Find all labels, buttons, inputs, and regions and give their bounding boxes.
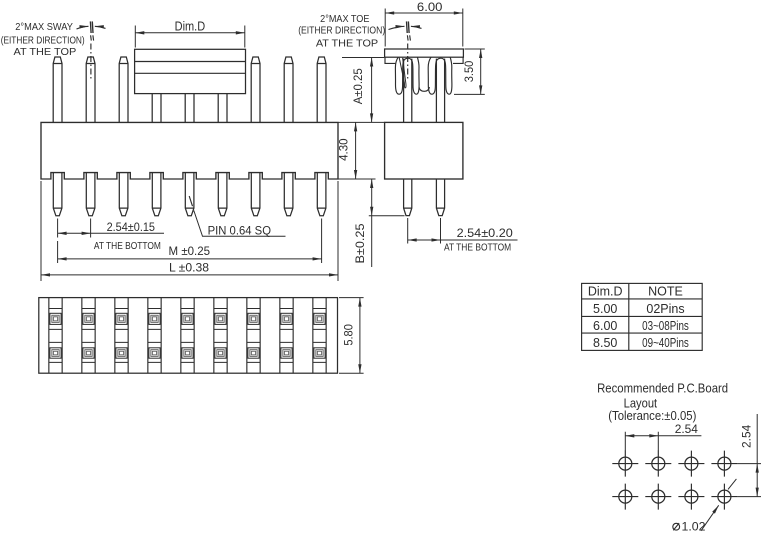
side bottom pin 1 — [404, 179, 412, 216]
svg-text:6.00: 6.00 — [593, 319, 617, 333]
sway arc arrow — [77, 26, 89, 29]
bottom pin 8 — [284, 173, 293, 216]
claw right swan — [445, 57, 452, 94]
svg-text:(EITHER DIRECTION): (EITHER DIRECTION) — [1, 35, 85, 47]
svg-text:M ±0.25: M ±0.25 — [169, 244, 211, 258]
diameter 1.02 label — [673, 520, 706, 534]
svg-text:8.50: 8.50 — [593, 336, 617, 350]
Dim.D block — [135, 49, 246, 93]
sway tilt ticks — [90, 21, 93, 33]
svg-text:03~08Pins: 03~08Pins — [642, 319, 689, 333]
svg-text:5.80: 5.80 — [341, 324, 355, 346]
table frame — [582, 283, 703, 350]
strip 7 — [247, 298, 260, 374]
2.54 +-0.15 dimension — [58, 219, 91, 238]
strip 5 — [181, 298, 194, 374]
hole row2 col1 — [612, 484, 638, 510]
tilted pin diagonals — [399, 58, 406, 88]
svg-text:L ±0.38: L ±0.38 — [169, 261, 209, 275]
B dimension — [371, 179, 373, 216]
svg-text:AT THE TOP: AT THE TOP — [14, 46, 77, 58]
top pin 3 — [119, 57, 128, 122]
claw dome — [436, 58, 445, 61]
bottom pin 6 — [218, 173, 227, 216]
pin 6 under block — [218, 94, 227, 123]
side bottom pin 2 — [436, 179, 444, 216]
svg-text:09~40Pins: 09~40Pins — [642, 336, 689, 350]
Dim.D dimension — [135, 26, 245, 48]
bottom pin 4 — [152, 173, 161, 216]
top pin 1 — [53, 57, 62, 122]
PIN 0.64 SQ label — [189, 196, 192, 206]
claw left swan (pin 1) — [395, 57, 403, 94]
svg-text:PIN 0.64 SQ: PIN 0.64 SQ — [208, 223, 271, 237]
svg-text:3.50: 3.50 — [462, 60, 476, 82]
table column line — [628, 283, 630, 350]
toe quote marks — [407, 35, 410, 40]
pin 5 under block — [185, 94, 194, 123]
svg-text:6.00: 6.00 — [417, 0, 443, 14]
svg-text:2.54: 2.54 — [675, 422, 699, 436]
hole row1 col3 — [678, 451, 704, 477]
strip 6 — [214, 298, 227, 374]
svg-text:2°MAX SWAY: 2°MAX SWAY — [15, 21, 73, 33]
side plate — [385, 49, 464, 57]
svg-text:AT THE BOTTOM: AT THE BOTTOM — [444, 242, 511, 254]
hole row1 col1 — [612, 451, 638, 477]
3.50 dimension — [454, 49, 485, 94]
strip 9 — [313, 298, 326, 374]
top pin 9 — [317, 57, 326, 122]
svg-text:Recommended P.C.Board: Recommended P.C.Board — [597, 381, 728, 395]
5.80 dimension — [339, 298, 364, 374]
svg-text:Dim.D: Dim.D — [588, 285, 623, 299]
leader tick through hole — [728, 479, 736, 490]
sway quote marks — [91, 35, 94, 40]
strip 1 — [49, 298, 62, 374]
hole row2 col2 — [645, 484, 671, 510]
svg-text:2°MAX TOE: 2°MAX TOE — [320, 13, 369, 25]
4.30 dimension — [339, 178, 376, 180]
bottom pin 5 — [185, 173, 194, 216]
bottom pin 1 — [53, 173, 62, 216]
svg-text:5.00: 5.00 — [593, 302, 617, 316]
hole row1 col2 — [645, 451, 671, 477]
body outline with bottom notches — [41, 122, 338, 179]
pcb 2.54 vertical dimension — [737, 464, 761, 497]
leader to hole — [701, 505, 719, 531]
toe tilt ticks — [407, 21, 410, 33]
pin 4 under block — [152, 94, 161, 123]
toe arc arrow — [389, 26, 405, 29]
svg-text:(EITHER DIRECTION): (EITHER DIRECTION) — [298, 25, 385, 37]
top pin 8 — [284, 57, 293, 122]
claw right swan — [412, 57, 419, 94]
side pin 2 — [436, 59, 444, 123]
bottom pin 2 — [86, 173, 95, 216]
svg-text:1.02: 1.02 — [682, 520, 706, 534]
strip 3 — [115, 298, 128, 374]
A dimension — [342, 57, 384, 59]
top view outline — [39, 298, 338, 374]
pcb 2.54 horizontal dimension — [625, 432, 658, 451]
svg-text:A±0.25: A±0.25 — [351, 68, 365, 104]
svg-text:AT THE TOP: AT THE TOP — [316, 38, 378, 50]
svg-text:AT THE BOTTOM: AT THE BOTTOM — [94, 240, 161, 252]
svg-text:2.54: 2.54 — [740, 424, 754, 448]
L dimension — [41, 181, 338, 281]
2.54 +-0.20 dimension — [408, 218, 441, 244]
svg-text:NOTE: NOTE — [648, 285, 683, 299]
bottom pin 3 — [119, 173, 128, 216]
toe centerline pin1 — [407, 44, 409, 82]
bottom pin 7 — [251, 173, 260, 216]
hole row2 col3 — [678, 484, 704, 510]
side pin 1 — [404, 59, 412, 123]
svg-text:02Pins: 02Pins — [646, 302, 684, 316]
6.00 dimension — [385, 9, 463, 47]
bottom pin 9 — [317, 173, 326, 216]
valley between claws — [419, 87, 429, 91]
top pin 2 — [86, 57, 95, 122]
strip 8 — [280, 298, 293, 374]
right step — [453, 57, 463, 63]
svg-text:2.54±0.15: 2.54±0.15 — [107, 220, 156, 234]
svg-text:4.30: 4.30 — [337, 138, 351, 161]
svg-text:B±0.25: B±0.25 — [353, 223, 367, 263]
side body — [385, 122, 463, 179]
sway centerline pin2 — [90, 44, 92, 82]
left step — [385, 57, 395, 63]
hole row1 col4 — [711, 451, 737, 477]
strip 4 — [148, 298, 161, 374]
strip 2 — [82, 298, 95, 374]
M dimension — [58, 219, 322, 264]
hole row2 col4 — [711, 484, 737, 510]
svg-text:2.54±0.20: 2.54±0.20 — [457, 226, 514, 240]
svg-text:Dim.D: Dim.D — [175, 19, 206, 33]
claw left swan (pin 2) — [428, 57, 436, 94]
table row lines — [582, 299, 703, 333]
claw dome — [404, 58, 413, 61]
svg-text:(Tolerance:±0.05): (Tolerance:±0.05) — [608, 409, 696, 423]
top pin 7 — [251, 57, 260, 122]
